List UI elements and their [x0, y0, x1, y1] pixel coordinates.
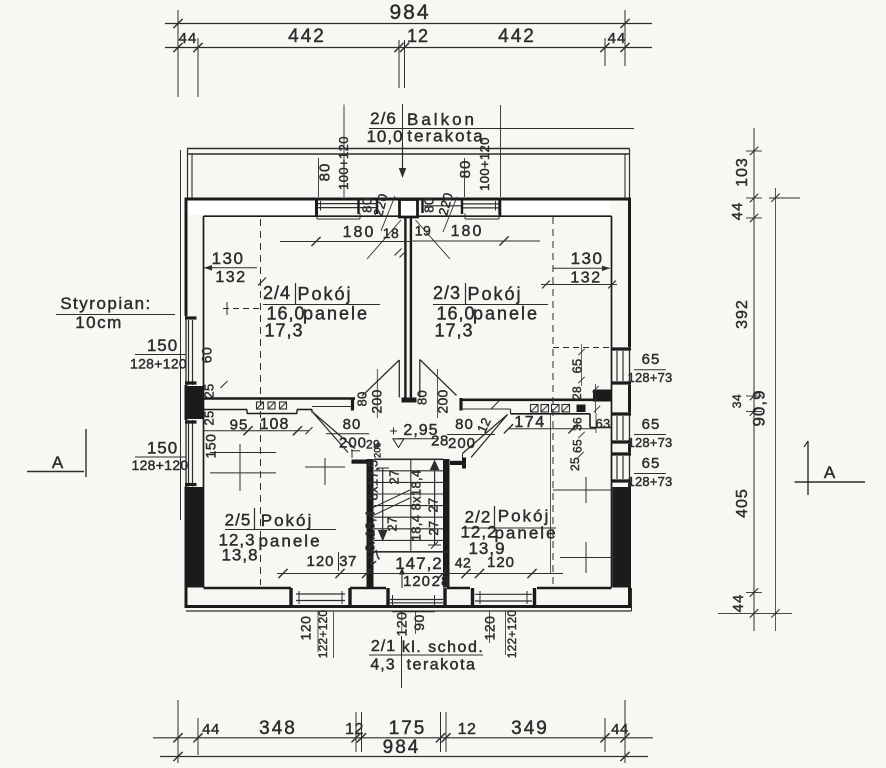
door leaf room 2/4 — [362, 360, 399, 398]
right wall inner face — [611, 216, 613, 587]
svg-text:37: 37 — [339, 553, 357, 570]
dim 150 rot left interior — [203, 434, 219, 459]
dim 200 rot wedge left — [369, 369, 385, 418]
svg-text:25: 25 — [202, 410, 217, 425]
svg-text:132: 132 — [570, 270, 601, 287]
svg-text:65: 65 — [642, 416, 661, 433]
dim 80 rot wedge left — [355, 391, 370, 406]
dim 100+120 rot left — [336, 105, 351, 198]
svg-text:80: 80 — [415, 390, 430, 405]
left wall lower solid — [188, 487, 204, 588]
svg-text:984: 984 — [389, 1, 430, 24]
label 2/1 kl. schod. terakota — [369, 636, 484, 688]
svg-text:2/1: 2/1 — [371, 638, 396, 655]
svg-text:2/3: 2/3 — [433, 283, 461, 303]
svg-text:128+73: 128+73 — [628, 370, 673, 385]
svg-text:392: 392 — [734, 299, 751, 329]
dim 36 rot right — [571, 417, 585, 431]
stair wall right — [443, 458, 466, 588]
stair label 27 c — [385, 516, 400, 531]
axis cross room 2/5 a — [210, 444, 276, 491]
dim 150 / 128+120 upper-left — [130, 336, 187, 372]
dimension text 442 top-left — [288, 26, 326, 47]
dimension text 442 top-right — [498, 26, 536, 47]
svg-text:150: 150 — [147, 336, 178, 355]
svg-text:28: 28 — [570, 386, 584, 400]
svg-text:175: 175 — [389, 718, 427, 739]
dim 80 rot left — [317, 158, 334, 197]
dim 220 rot by pier right — [435, 191, 457, 232]
svg-text:panele: panele — [473, 304, 539, 324]
dim 90,9 rot — [750, 389, 769, 426]
dim 28 door R — [431, 433, 449, 450]
dim 80 door L — [326, 416, 369, 434]
stair label 27 d — [426, 520, 441, 535]
bottom wall outer face — [186, 605, 631, 608]
window W3 left (128+120) — [185, 318, 197, 385]
dim 147,2 — [395, 554, 443, 573]
dim 80 rot by pier right — [422, 197, 437, 212]
dim 37 corridor — [339, 552, 357, 571]
dim 95 — [230, 417, 249, 434]
left wall pier at middle wall — [188, 386, 204, 419]
svg-text:25: 25 — [202, 383, 217, 398]
middle wall cap at door L — [351, 398, 354, 411]
window W6 right (128+73) — [612, 414, 632, 442]
svg-text:984: 984 — [383, 737, 421, 758]
svg-text:17,3: 17,3 — [264, 321, 303, 341]
dimension text 44 bottom-left — [202, 721, 220, 738]
svg-text:kl. schod.: kl. schod. — [402, 639, 485, 656]
svg-text:18,4: 18,4 — [409, 515, 424, 542]
svg-text:200: 200 — [339, 435, 367, 452]
dim 18 by pier — [367, 220, 401, 259]
dim 132 room 2/3 — [541, 270, 617, 289]
dim 200 door R — [448, 435, 476, 452]
dimension text 44 bottom-right — [611, 721, 629, 738]
svg-text:120: 120 — [403, 573, 431, 590]
exterior insulation line left — [180, 150, 182, 520]
window W1 sill — [317, 214, 360, 220]
dim 100+120 rot right — [477, 105, 501, 197]
svg-text:442: 442 — [498, 26, 536, 47]
svg-text:128+73: 128+73 — [628, 435, 673, 450]
svg-text:2/5: 2/5 — [225, 511, 252, 530]
top wall inner face — [204, 215, 612, 217]
dim 65 / 128+73 lower — [628, 455, 673, 489]
label room 2/3 — [433, 283, 548, 341]
svg-text:120: 120 — [306, 553, 334, 570]
svg-text:130: 130 — [212, 249, 245, 268]
svg-text:150: 150 — [203, 434, 219, 459]
dim 180 left — [280, 224, 411, 246]
svg-text:Pokój: Pokój — [467, 284, 522, 304]
dim 120 corridor — [306, 553, 334, 570]
left wall inner face — [203, 216, 205, 587]
dim 34 rot — [730, 394, 744, 408]
svg-text:348: 348 — [259, 718, 297, 739]
svg-text:panele: panele — [258, 532, 321, 551]
entrance dim line — [392, 611, 435, 613]
svg-text:90,9: 90,9 — [750, 389, 769, 426]
svg-text:65: 65 — [571, 439, 585, 453]
chimney block room 2/3 corner — [593, 390, 612, 402]
right wall lower solid — [613, 487, 629, 588]
stair landing edge — [367, 551, 450, 553]
entrance door bottom — [388, 588, 445, 608]
label Styropian 10cm — [56, 294, 175, 332]
partition wall foot — [402, 398, 417, 403]
dim 200 door L — [339, 435, 367, 452]
dim 19 by pier — [394, 220, 450, 259]
stair divider line — [410, 459, 412, 552]
svg-text:80: 80 — [457, 160, 474, 179]
vent squares left — [257, 402, 287, 409]
svg-text:panele: panele — [303, 304, 369, 324]
arrow to balcony — [399, 143, 406, 178]
svg-text:442: 442 — [288, 26, 326, 47]
extension line 63 — [595, 413, 597, 433]
dim 120 rot entrance — [394, 611, 410, 636]
svg-text:36: 36 — [571, 417, 585, 431]
level mark 2,95 — [390, 422, 439, 448]
svg-text:27: 27 — [426, 497, 441, 512]
middle wall cap at door R — [459, 398, 462, 411]
dim 150 / 128+120 lower-left — [132, 439, 189, 474]
middle wall door L lintel — [312, 406, 353, 408]
svg-text:100+120: 100+120 — [477, 137, 492, 191]
dimension line bottom row 1 — [153, 700, 653, 763]
dim 392 rot — [734, 299, 751, 329]
axis line dashed horiz room 2/3 — [553, 347, 610, 349]
dim 28 rot right — [570, 384, 600, 413]
svg-text:128+120: 128+120 — [130, 356, 187, 372]
stair label 27 b — [426, 497, 441, 512]
extension line squares — [550, 413, 552, 573]
axis line dashed vertical left — [260, 219, 262, 585]
stair wall left — [352, 459, 374, 588]
dimension line 984 (top row 1) — [165, 10, 652, 97]
bottom wall inner face — [204, 587, 612, 589]
svg-text:130: 130 — [571, 249, 604, 268]
right wall outer face — [629, 199, 631, 607]
dim 90 rot entrance — [411, 611, 427, 634]
svg-text:80: 80 — [317, 163, 334, 182]
svg-text:28: 28 — [431, 433, 449, 450]
dim 25 rot left interior a — [202, 381, 228, 399]
svg-text:405: 405 — [734, 488, 751, 518]
svg-text:12: 12 — [345, 721, 364, 738]
dim 80 rot wedge right — [415, 390, 430, 405]
svg-text:180: 180 — [343, 224, 376, 241]
middle wall left top face — [204, 397, 356, 400]
svg-text:A: A — [52, 453, 64, 472]
dimension text 44 top-left — [179, 30, 198, 47]
balcony slab outline — [187, 149, 630, 199]
dim 122+120 rot window W9 — [505, 610, 519, 659]
dim 120 rot window W8 — [298, 611, 319, 652]
svg-text:80: 80 — [455, 416, 474, 433]
dimension text 12 top-center — [407, 26, 429, 46]
stair label 27 a — [387, 469, 402, 484]
dimension line 95/108 — [204, 426, 313, 435]
label room 2/2 — [460, 506, 557, 558]
axis line dashed vertical right — [552, 217, 554, 585]
door leaf room 2/3 — [420, 360, 457, 398]
window W9 bottom (122+120) — [473, 588, 535, 605]
dim 405 rot — [734, 488, 751, 518]
svg-text:128+120: 128+120 — [132, 457, 189, 473]
svg-text:8x18,4: 8x18,4 — [409, 470, 424, 511]
svg-text:80: 80 — [343, 416, 362, 433]
svg-text:122+120: 122+120 — [505, 610, 519, 659]
axis cross room 2/2 lower — [560, 542, 616, 573]
dim 80 door R — [447, 416, 495, 435]
stair label 18,4 lower — [409, 515, 424, 542]
partition wall stub centre — [405, 217, 411, 398]
svg-text:Styropian:: Styropian: — [60, 294, 152, 313]
svg-text:34: 34 — [730, 394, 744, 408]
svg-text:44: 44 — [729, 202, 746, 221]
chimney pier — [400, 200, 418, 218]
dim 44 rot upper — [729, 202, 746, 221]
dim 174 — [504, 414, 596, 433]
top wall right band — [500, 199, 610, 216]
dimension chain right — [718, 128, 800, 631]
axis cross room 2/5 b — [305, 458, 345, 485]
svg-text:8x18,4: 8x18,4 — [363, 511, 378, 552]
svg-text:17,3: 17,3 — [434, 321, 473, 341]
label room 2/5 — [218, 508, 336, 565]
svg-text:2/4: 2/4 — [263, 283, 291, 303]
dim 12 rot jamb — [474, 401, 499, 435]
svg-text:132: 132 — [215, 269, 246, 286]
window W2 top (100+120) — [423, 200, 500, 214]
top wall left band — [186, 199, 317, 216]
dim 122+120 rot window W8 — [316, 610, 334, 659]
dim 108 — [260, 416, 290, 433]
svg-text:200: 200 — [435, 389, 451, 413]
dim 65 rot room 2/3 — [570, 344, 585, 386]
svg-text:44: 44 — [730, 594, 747, 613]
left wall outer face — [185, 199, 187, 608]
svg-text:44: 44 — [179, 30, 198, 47]
dimension text 44 top-right — [608, 30, 627, 47]
window W7 right (128+73) — [612, 454, 632, 481]
dim 80 rot by pier left — [360, 197, 375, 212]
dimension line bottom row 2 — [160, 752, 648, 761]
dim 65 / 128+73 upper — [628, 351, 673, 385]
dim 103 rot — [734, 157, 751, 187]
stair label 8x17,5 — [366, 460, 381, 501]
svg-text:A: A — [824, 463, 836, 482]
svg-text:349: 349 — [511, 718, 549, 739]
arrow up entrance — [399, 568, 405, 589]
middle wall left bottom face — [204, 410, 313, 414]
svg-text:150: 150 — [147, 439, 178, 458]
dim 25 rot left interior b — [202, 410, 217, 425]
svg-text:25: 25 — [568, 457, 582, 471]
svg-text:44: 44 — [608, 30, 627, 47]
svg-text:60: 60 — [199, 347, 215, 364]
svg-text:10,0: 10,0 — [366, 127, 403, 146]
svg-text:205: 205 — [373, 442, 383, 458]
svg-text:10cm: 10cm — [75, 313, 123, 332]
svg-text:200: 200 — [448, 435, 476, 452]
svg-text:terakota: terakota — [407, 657, 477, 674]
svg-text:13,9: 13,9 — [468, 539, 505, 558]
window W8 bottom (122+120) — [291, 588, 350, 605]
dim 65 / 128+73 middle — [628, 416, 673, 450]
label room 2/4 — [263, 283, 380, 341]
stair arrow up (right flight) — [428, 460, 441, 549]
svg-text:27: 27 — [385, 516, 400, 531]
dim 28 below — [432, 573, 451, 590]
svg-text:65: 65 — [642, 455, 661, 472]
svg-text:44: 44 — [202, 721, 220, 738]
dim 120 room 2/2 door — [487, 554, 515, 571]
svg-text:Pokój: Pokój — [261, 511, 314, 530]
dim 63 — [595, 416, 610, 431]
svg-text:65: 65 — [642, 351, 661, 368]
dim 80 rot right — [457, 158, 474, 197]
dim 44 rot lower — [730, 594, 747, 613]
dimension line hall — [277, 569, 563, 578]
svg-text:90: 90 — [411, 614, 427, 631]
dim 180 right — [411, 223, 541, 246]
middle wall right bottom face — [461, 409, 612, 428]
dim 65 rot right — [571, 432, 585, 453]
svg-text:63: 63 — [595, 416, 610, 431]
svg-text:65: 65 — [570, 358, 585, 373]
svg-text:8x17,5: 8x17,5 — [366, 460, 381, 501]
svg-text:80: 80 — [355, 391, 370, 406]
svg-text:122+120: 122+120 — [316, 610, 330, 659]
stair label 8x18,4 — [409, 470, 424, 511]
svg-text:44: 44 — [611, 721, 629, 738]
svg-text:103: 103 — [734, 157, 751, 187]
label 2/6 Balkon terakota — [366, 104, 634, 146]
dim 205 rot door L — [373, 442, 383, 458]
svg-text:2/6: 2/6 — [370, 109, 397, 128]
dimension text 984 top — [389, 1, 430, 24]
svg-text:13,8: 13,8 — [221, 546, 258, 565]
section marker A right — [795, 441, 866, 495]
middle wall right top face — [461, 398, 612, 401]
axis line dashed horiz room 2/4 — [223, 302, 260, 315]
dim 132 room 2/4 — [215, 269, 265, 286]
svg-text:27: 27 — [426, 520, 441, 535]
svg-text:Pokój: Pokój — [297, 284, 352, 304]
section marker A left — [27, 429, 86, 477]
svg-text:27: 27 — [387, 469, 402, 484]
overall extension line right — [771, 188, 779, 631]
dim 27 diag — [364, 547, 385, 568]
dim 42 — [455, 555, 472, 571]
svg-text:80: 80 — [422, 197, 437, 212]
stair break lines — [372, 490, 410, 516]
stair arrow down (left flight) — [377, 468, 389, 542]
vent squares right — [531, 405, 586, 413]
dimension line 44/442/12/442/44 (top row 2) — [165, 38, 652, 97]
dimension text 12 bottom-right — [458, 721, 477, 738]
dim 120 below — [403, 573, 431, 590]
dim 120 rot window W9 — [482, 611, 498, 643]
top wall outer face — [185, 198, 632, 201]
stair label 8x18,4 lower — [363, 511, 378, 552]
dimension text 349 — [511, 718, 549, 739]
svg-text:120: 120 — [298, 616, 314, 641]
svg-text:200: 200 — [369, 389, 385, 413]
svg-text:180: 180 — [451, 223, 484, 240]
dim 25 rot right — [568, 452, 584, 471]
svg-text:terakota: terakota — [407, 127, 484, 146]
stair steps — [374, 459, 443, 540]
window W4 left (128+120) — [185, 420, 197, 487]
door D1 swing (to hall) — [313, 412, 361, 458]
dimension text 984 bottom — [383, 737, 421, 758]
dimension text 12 bottom-left — [345, 721, 364, 738]
svg-text:19: 19 — [415, 223, 432, 239]
dimension text 175 — [389, 718, 427, 739]
dim 130 room 2/3 — [553, 249, 610, 271]
svg-text:100+120: 100+120 — [336, 136, 351, 190]
window W5 right (128+73) — [612, 349, 632, 383]
svg-text:12: 12 — [407, 26, 429, 46]
bottom wall drip line — [186, 588, 632, 611]
door D2 swing (to room 2/2) — [463, 415, 508, 459]
dim 60 rot left interior — [199, 347, 215, 364]
svg-text:128+73: 128+73 — [628, 474, 673, 489]
svg-text:4,3: 4,3 — [370, 657, 395, 674]
dimension text 348 — [259, 718, 297, 739]
dim 130 room 2/4 — [204, 249, 257, 271]
dim 200 rot wedge right — [435, 369, 451, 418]
dim 220 rot by pier left — [370, 192, 395, 231]
axis cross room 2/2 upper — [553, 477, 616, 503]
window W1 top (100+120) — [317, 200, 377, 214]
dim 29 door L — [366, 438, 380, 452]
window W2 sill — [465, 214, 499, 220]
svg-text:12: 12 — [458, 721, 477, 738]
